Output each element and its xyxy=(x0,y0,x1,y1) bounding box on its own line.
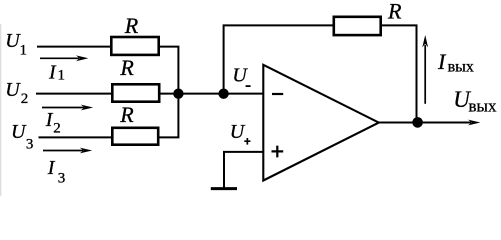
svg-text:3: 3 xyxy=(58,170,65,186)
label U_vyh xyxy=(453,87,497,115)
wire feedback left (node B up and across) xyxy=(224,25,333,93)
op-amp minus pin symbol xyxy=(272,93,283,95)
label I3 xyxy=(47,157,65,186)
label I_vyh xyxy=(437,49,474,75)
svg-text:3: 3 xyxy=(26,137,34,153)
resistor R3 xyxy=(112,128,158,145)
svg-text:I: I xyxy=(48,62,57,84)
svg-text:I: I xyxy=(47,157,56,179)
op-amp plus pin symbol xyxy=(272,146,284,158)
current arrow I_out (up) xyxy=(422,35,428,104)
wire R1 to node A xyxy=(159,47,178,94)
current arrow I2 xyxy=(42,105,93,111)
wire feedback right down to output node xyxy=(382,25,417,122)
svg-text:1: 1 xyxy=(20,43,28,59)
svg-text:U: U xyxy=(232,64,248,86)
node A junction dot xyxy=(173,89,183,99)
wire input U1 xyxy=(37,46,110,48)
current arrow I3 xyxy=(43,148,92,154)
wire plus input to ground xyxy=(224,152,264,188)
current arrow I1 xyxy=(40,55,88,61)
resistor R1 xyxy=(111,37,158,55)
output node dot xyxy=(412,117,423,128)
resistor R feedback xyxy=(334,17,381,35)
svg-text:R: R xyxy=(119,55,134,80)
label U3 xyxy=(11,121,33,153)
wire R2 to op-amp minus input xyxy=(160,93,264,95)
op-amp U1 triangle xyxy=(263,65,379,181)
label U+ (non-inverting input) xyxy=(230,121,251,145)
label U- (inverting input) xyxy=(232,64,250,86)
wire input U3 xyxy=(39,136,112,138)
svg-text:вых: вых xyxy=(448,58,474,75)
svg-text:2: 2 xyxy=(21,91,29,107)
scan edge xyxy=(0,24,1,196)
label I2 xyxy=(45,109,61,136)
node B junction dot xyxy=(218,89,228,99)
label U2 xyxy=(5,79,28,107)
svg-text:вых: вых xyxy=(469,96,497,115)
svg-text:U: U xyxy=(11,121,27,143)
label U1 xyxy=(5,30,27,59)
resistor R2 xyxy=(112,84,159,101)
svg-text:R: R xyxy=(387,0,402,23)
svg-text:2: 2 xyxy=(53,121,61,137)
ground xyxy=(211,187,237,190)
svg-text:R: R xyxy=(119,102,134,127)
svg-text:1: 1 xyxy=(58,68,66,84)
label I1 xyxy=(48,62,65,84)
svg-text:U: U xyxy=(230,121,246,143)
svg-text:U: U xyxy=(5,79,21,101)
svg-text:R: R xyxy=(124,13,139,38)
wire output with arrow xyxy=(379,120,481,126)
wire R3 to node A xyxy=(159,94,178,138)
wire input U2 xyxy=(36,93,111,95)
